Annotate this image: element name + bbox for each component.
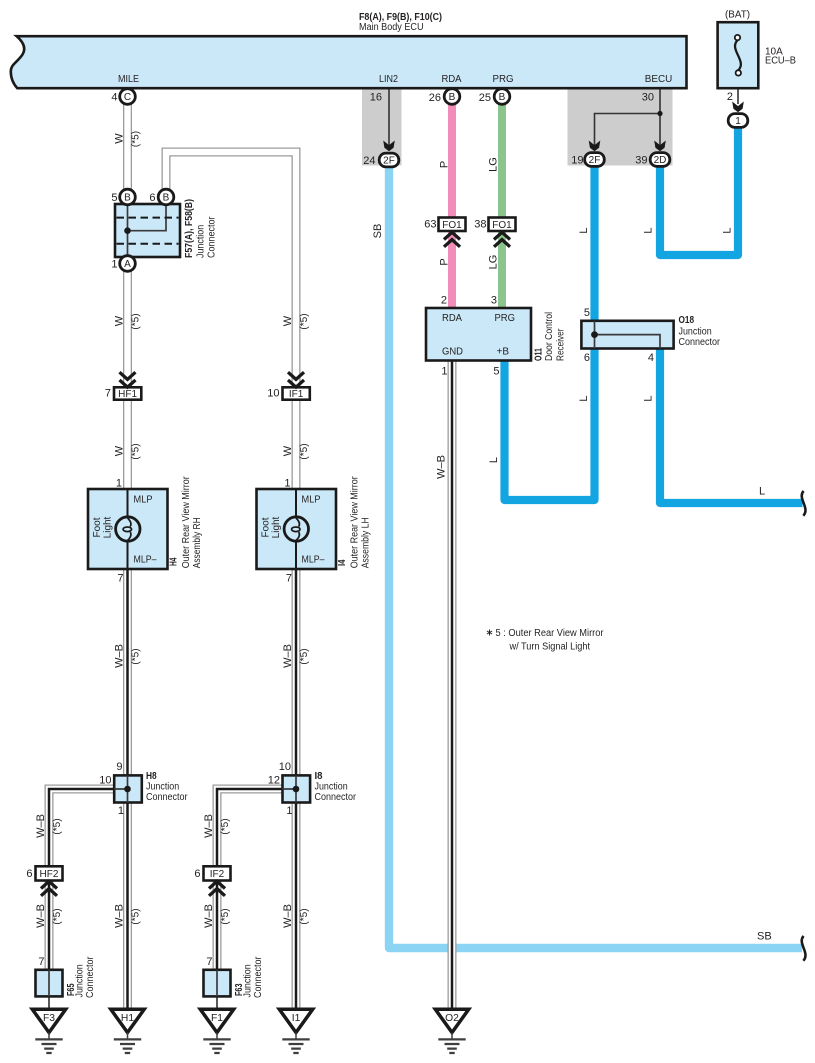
svg-text:(*5): (*5): [299, 648, 310, 664]
outer rear view mirror assembly RH H4 with foot light lamp: [88, 489, 168, 569]
svg-text:19: 19: [571, 155, 583, 167]
svg-text:I4: I4: [337, 559, 348, 566]
svg-text:10: 10: [99, 775, 111, 787]
svg-text:FO1: FO1: [492, 220, 512, 231]
fuse 10A ECU-B (BAT) box: [718, 22, 759, 88]
svg-text:7: 7: [286, 573, 292, 585]
svg-text:H8: H8: [146, 771, 157, 782]
signal line BECU 30 with junction: [595, 88, 661, 149]
svg-text:(*5): (*5): [131, 648, 142, 664]
gray shading behind LIN2 branch: [362, 88, 402, 166]
svg-text:7: 7: [38, 956, 44, 968]
svg-text:Door Control: Door Control: [544, 312, 555, 361]
svg-text:5 : Outer Rear View Mirror: 5 : Outer Rear View Mirror: [496, 628, 605, 639]
svg-text:L: L: [759, 486, 765, 498]
door control receiver O11: [426, 308, 531, 361]
svg-text:F1: F1: [211, 1013, 223, 1024]
svg-text:P: P: [439, 258, 451, 265]
svg-text:Junction: Junction: [196, 225, 207, 258]
svg-text:BECU: BECU: [645, 74, 673, 85]
svg-text:I8: I8: [315, 771, 323, 782]
off-page squiggle on L wire: [802, 491, 806, 516]
svg-text:Foot: Foot: [92, 517, 103, 537]
svg-text:30: 30: [642, 92, 654, 104]
connector IF1: [283, 387, 310, 399]
svg-text:1: 1: [735, 116, 741, 127]
wire W: IF1 to I4 pin 1: [292, 400, 301, 489]
terminal circle B (PRG 25): [494, 89, 510, 105]
svg-text:2: 2: [727, 91, 733, 103]
svg-text:SB: SB: [757, 931, 772, 943]
svg-text:1: 1: [116, 478, 122, 490]
svg-text:W: W: [114, 133, 126, 144]
svg-text:Light: Light: [271, 516, 282, 538]
svg-text:Foot: Foot: [261, 517, 272, 537]
ground F3: [32, 1009, 65, 1053]
svg-text:9: 9: [116, 761, 122, 773]
svg-text:w/ Turn Signal Light: w/ Turn Signal Light: [509, 642, 591, 653]
svg-text:Light: Light: [103, 516, 114, 538]
svg-text:HF1: HF1: [118, 389, 137, 400]
arrow at BECU 2D branch: [654, 141, 666, 152]
svg-text:Connector: Connector: [146, 792, 188, 803]
svg-text:W–B: W–B: [203, 904, 215, 928]
svg-text:5: 5: [584, 307, 590, 319]
svg-text:2F: 2F: [589, 155, 601, 166]
svg-text:(*5): (*5): [220, 908, 231, 924]
svg-text:W–B: W–B: [35, 814, 47, 838]
svg-text:6: 6: [584, 352, 590, 364]
svg-text:Connector: Connector: [315, 792, 357, 803]
junction connector F63: [204, 970, 231, 1010]
svg-text:MLP: MLP: [134, 495, 153, 506]
svg-text:L: L: [578, 227, 590, 233]
svg-text:26: 26: [429, 92, 441, 104]
svg-text:(*5): (*5): [220, 818, 231, 834]
svg-text:4: 4: [648, 352, 654, 364]
svg-text:25: 25: [479, 92, 491, 104]
svg-text:16: 16: [370, 92, 382, 104]
svg-text:W–B: W–B: [282, 904, 294, 928]
svg-text:LG: LG: [488, 157, 500, 172]
ground O2: [435, 1009, 468, 1053]
svg-text:W–B: W–B: [114, 904, 126, 928]
svg-text:L: L: [722, 227, 734, 233]
wire W-B: I8 pin 1 to ground I1: [292, 803, 301, 1010]
wire W-B: H8 pin 10 branch left and down to HF2: [49, 789, 114, 866]
svg-text:6: 6: [149, 192, 155, 204]
terminal circle C (MILE 4): [120, 89, 136, 105]
ground I1: [279, 1009, 312, 1053]
svg-text:6: 6: [26, 868, 32, 880]
svg-text:MLP–: MLP–: [134, 555, 157, 566]
svg-text:SB: SB: [372, 224, 384, 239]
chevrons above HF1: [120, 372, 136, 387]
svg-text:2D: 2D: [654, 155, 667, 166]
Main Body ECU connector bar F8(A),F9(B),F10(C): [11, 36, 687, 88]
terminal circle B (RDA 26): [444, 89, 460, 105]
chevrons below FO1 (PRG): [494, 232, 510, 247]
svg-text:7: 7: [206, 956, 212, 968]
svg-text:MLP–: MLP–: [302, 555, 325, 566]
svg-text:1: 1: [441, 366, 447, 378]
svg-text:1: 1: [286, 805, 292, 817]
arrow below fuse: [732, 102, 744, 113]
connector HF2: [36, 866, 63, 880]
svg-text:12: 12: [268, 775, 280, 787]
junction connector I8: [283, 775, 311, 802]
svg-text:Connector: Connector: [679, 337, 721, 348]
svg-text:39: 39: [635, 155, 647, 167]
svg-text:RDA: RDA: [442, 313, 462, 324]
connector FO1 on PRG wire: [489, 218, 516, 232]
wire L from BECU 19(2F) down through O18, left, up to O11 +B pin 5: [505, 163, 595, 500]
svg-text:F3: F3: [43, 1013, 55, 1024]
svg-text:Assembly RH: Assembly RH: [192, 517, 203, 568]
svg-text:I1: I1: [292, 1013, 301, 1024]
svg-text:2F: 2F: [383, 156, 395, 167]
svg-text:W: W: [114, 445, 126, 456]
svg-text:P: P: [439, 161, 451, 168]
svg-text:4: 4: [111, 92, 117, 104]
svg-text:B: B: [499, 92, 506, 103]
svg-text:Junction: Junction: [146, 782, 179, 793]
wire W-B: IF2 to F63 pin 7: [213, 881, 222, 970]
wire W: ECU MILE 4(C) to F57 5(B): [123, 97, 132, 198]
terminal circle B (F57 pin 6): [158, 189, 174, 205]
ground H1: [111, 1009, 144, 1053]
svg-text:B: B: [449, 92, 456, 103]
svg-text:MILE: MILE: [118, 74, 139, 85]
chevrons below HF2: [41, 881, 57, 896]
wire W-B: I4 pin 7 to I8 pin 10: [292, 569, 301, 775]
svg-text:FO1: FO1: [442, 220, 462, 231]
svg-text:6: 6: [194, 868, 200, 880]
wire L from BECU 39(2D) down, right, up to fuse terminal 1: [660, 124, 738, 255]
svg-text:(*5): (*5): [299, 908, 310, 924]
svg-text:1: 1: [284, 478, 290, 490]
svg-text:H1: H1: [121, 1013, 134, 1024]
svg-text:W–B: W–B: [436, 455, 448, 479]
svg-text:10: 10: [279, 761, 291, 773]
gray shading behind BECU branch: [568, 88, 673, 166]
svg-text:5: 5: [493, 366, 499, 378]
svg-text:(*5): (*5): [131, 313, 142, 329]
svg-text:C: C: [124, 92, 131, 103]
svg-text:GND: GND: [442, 347, 463, 358]
svg-text:W: W: [282, 315, 294, 326]
wire W-B: H8 pin 1 to ground H1: [123, 803, 132, 1010]
svg-text:B: B: [124, 193, 131, 204]
svg-text:7: 7: [117, 573, 123, 585]
junction connector F57(A),F58(B): [115, 204, 180, 257]
wire W-B: HF2 to F65 pin 7: [45, 881, 54, 970]
chevrons below FO1 (RDA): [444, 232, 460, 247]
svg-text:RDA: RDA: [442, 74, 462, 85]
junction connector O18: [581, 321, 673, 349]
svg-text:Assembly LH: Assembly LH: [361, 517, 372, 568]
svg-text:Junction: Junction: [75, 964, 86, 997]
junction node on BECU line: [657, 111, 662, 116]
svg-text:(*5): (*5): [131, 443, 142, 459]
svg-text:W–B: W–B: [35, 904, 47, 928]
wire W: HF1 to H4 pin 1: [123, 400, 132, 489]
svg-text:W: W: [114, 315, 126, 326]
svg-text:O11: O11: [534, 348, 545, 361]
wire W-B: H4 pin 7 to H8 pin 9: [123, 569, 132, 775]
svg-text:L: L: [578, 395, 590, 401]
arrow at LIN2 branch: [383, 141, 395, 152]
svg-text:5: 5: [111, 192, 117, 204]
connector HF1: [114, 387, 141, 399]
svg-text:W–B: W–B: [114, 644, 126, 668]
svg-text:ECU–B: ECU–B: [765, 56, 796, 67]
svg-text:7: 7: [105, 388, 111, 400]
wire W-B: I8 pin 12 branch left and down to IF2: [217, 789, 283, 866]
ground F1: [200, 1009, 233, 1053]
svg-text:PRG: PRG: [495, 313, 516, 324]
svg-text:Receiver: Receiver: [556, 328, 567, 361]
chevrons below IF2: [209, 881, 225, 896]
terminal circle A (F57 pin 1): [120, 256, 136, 272]
svg-text:A: A: [124, 259, 131, 270]
svg-text:L: L: [643, 227, 655, 233]
outer rear view mirror assembly LH I4 with foot light lamp: [257, 489, 337, 569]
svg-text:PRG: PRG: [493, 74, 514, 85]
svg-text:(*5): (*5): [131, 908, 142, 924]
terminal circle B (F57 pin 5): [120, 189, 136, 205]
signal line from fuse to arrow: [737, 74, 739, 104]
svg-text:24: 24: [363, 155, 375, 167]
wire SB from LIN2 24(2F) down then right to off-page: [389, 160, 802, 948]
svg-text:Connector: Connector: [207, 216, 218, 258]
svg-text:Outer Rear View Mirror: Outer Rear View Mirror: [350, 476, 361, 569]
svg-text:IF1: IF1: [289, 389, 304, 400]
wire W-B: O11 GND pin 1 to ground O2: [448, 361, 457, 1010]
connector FO1 on RDA wire: [439, 218, 466, 232]
note star symbol: [487, 630, 492, 636]
svg-text:B: B: [163, 193, 170, 204]
terminal oval 2D (39): [650, 153, 670, 167]
svg-text:Connector: Connector: [85, 956, 96, 998]
svg-text:LIN2: LIN2: [379, 74, 398, 85]
svg-text:(*5): (*5): [52, 908, 63, 924]
arrow at BECU 2F branch: [589, 141, 601, 152]
svg-text:W–B: W–B: [282, 644, 294, 668]
svg-text:Main Body ECU: Main Body ECU: [359, 22, 424, 33]
terminal oval 2F (24): [379, 153, 399, 167]
svg-text:(*5): (*5): [52, 818, 63, 834]
svg-text:L: L: [488, 457, 500, 463]
svg-text:Outer Rear View Mirror: Outer Rear View Mirror: [181, 476, 192, 569]
wire LG from ECU PRG 25(B) to O11 pin 3: [498, 97, 506, 309]
wire L from O18 pin 4 down then right to off-page: [660, 349, 803, 504]
svg-text:Junction: Junction: [315, 782, 348, 793]
svg-text:Junction: Junction: [679, 327, 712, 338]
off-page squiggle on SB wire: [802, 936, 806, 961]
svg-text:L: L: [643, 395, 655, 401]
svg-text:(*5): (*5): [131, 131, 142, 147]
svg-text:(*5): (*5): [299, 443, 310, 459]
svg-text:+B: +B: [497, 347, 510, 358]
wire W loop: F57 6(B) up, right, down to IF1: [166, 152, 296, 386]
svg-text:2: 2: [441, 295, 447, 307]
svg-text:Junction: Junction: [243, 964, 254, 997]
svg-text:(*5): (*5): [299, 313, 310, 329]
chevrons above IF1: [288, 372, 304, 387]
svg-text:1: 1: [118, 805, 124, 817]
svg-text:O18: O18: [679, 315, 695, 326]
svg-text:63: 63: [424, 219, 436, 231]
terminal oval 1 (BAT): [728, 114, 748, 128]
svg-text:Connector: Connector: [253, 956, 264, 998]
wire P from ECU RDA 26(B) to O11 pin 2: [448, 97, 456, 309]
svg-text:10: 10: [267, 388, 279, 400]
svg-text:W: W: [282, 445, 294, 456]
svg-text:W–B: W–B: [203, 814, 215, 838]
svg-text:3: 3: [491, 295, 497, 307]
svg-text:H4: H4: [169, 557, 180, 566]
svg-text:F57(A), F58(B): F57(A), F58(B): [184, 199, 195, 258]
svg-text:(BAT): (BAT): [725, 10, 750, 21]
wire W: F57 1(A) down to HF1: [123, 264, 132, 387]
junction connector H8: [114, 775, 142, 802]
svg-text:HF2: HF2: [40, 869, 59, 880]
connector IF2: [204, 866, 231, 880]
svg-text:IF2: IF2: [210, 869, 225, 880]
svg-text:38: 38: [474, 219, 486, 231]
junction connector F65: [36, 970, 63, 1010]
signal line LIN2 from ECU to arrow: [388, 88, 390, 148]
terminal oval 2F (19): [585, 153, 605, 167]
svg-text:1: 1: [111, 259, 117, 271]
svg-text:LG: LG: [488, 255, 500, 270]
svg-text:MLP: MLP: [302, 495, 321, 506]
svg-text:O2: O2: [445, 1013, 459, 1024]
